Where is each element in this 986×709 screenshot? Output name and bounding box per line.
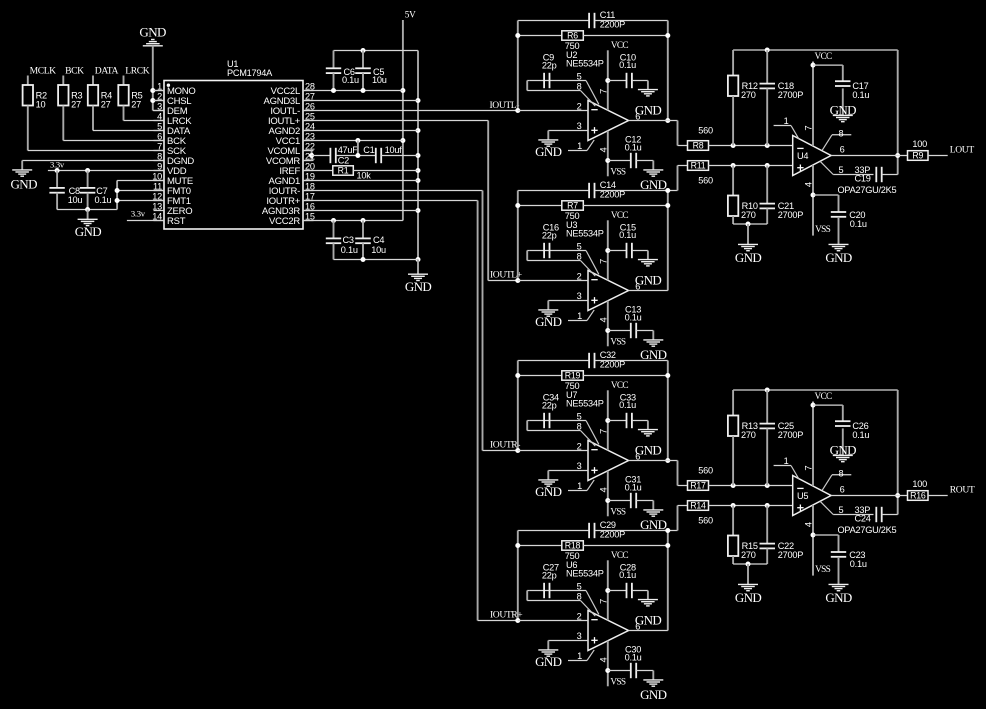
svg-text:VSS: VSS xyxy=(610,167,625,177)
wire (pin 7 VCC) xyxy=(607,220,609,280)
resistor R18 750 (feedback) xyxy=(518,545,562,547)
wire xyxy=(733,563,767,565)
junction xyxy=(811,193,816,198)
svg-text:5: 5 xyxy=(577,71,582,81)
wire (AGND top rail) xyxy=(334,50,419,52)
junction xyxy=(895,153,900,158)
op-amp U4 OPA27GU/2K5 xyxy=(793,136,897,195)
svg-text:4: 4 xyxy=(803,182,814,187)
capacitor C17 0.1u (VCC decoupling) xyxy=(813,64,843,66)
svg-text:GND: GND xyxy=(640,517,667,532)
wire (pin 8 trim) xyxy=(822,475,832,491)
svg-text:11: 11 xyxy=(153,181,162,191)
wire xyxy=(381,155,418,157)
svg-text:VSS: VSS xyxy=(610,507,625,517)
svg-text:10uf: 10uf xyxy=(385,145,403,155)
resistor R5 xyxy=(123,76,125,86)
wire xyxy=(48,170,164,172)
junction xyxy=(765,483,770,488)
svg-text:1: 1 xyxy=(577,311,582,321)
svg-text:22: 22 xyxy=(305,141,315,151)
svg-text:27: 27 xyxy=(101,99,111,109)
capacitor C27 22p (comp pins 5-8) xyxy=(530,590,586,592)
svg-text:C29: C29 xyxy=(600,520,616,530)
junction xyxy=(811,63,816,68)
wire xyxy=(709,505,793,507)
resistor R9 100 (output) xyxy=(908,151,929,161)
svg-text:GND: GND xyxy=(405,279,432,294)
wire (pin 1 trim) xyxy=(774,465,791,467)
svg-text:3: 3 xyxy=(577,121,582,131)
wire (output pin 6) xyxy=(629,630,668,632)
capacitor C34 22p (comp pins 5-8) xyxy=(530,420,586,422)
svg-text:R14: R14 xyxy=(690,501,706,511)
capacitor C13 0.1u (VSS decoupling) xyxy=(608,330,631,332)
junction xyxy=(85,207,90,212)
wire xyxy=(733,223,767,225)
wire xyxy=(153,90,164,92)
junction xyxy=(515,108,520,113)
junction xyxy=(416,168,421,173)
svg-text:GND: GND xyxy=(825,250,852,265)
wire xyxy=(117,200,164,202)
resistor R11 560 xyxy=(688,161,709,171)
ground (below R/C) xyxy=(747,564,749,584)
svg-text:28: 28 xyxy=(305,81,315,91)
junction xyxy=(811,533,816,538)
capacitor C8 xyxy=(56,171,58,188)
svg-text:NE5534P: NE5534P xyxy=(566,58,604,68)
wire (pin 3 to ground) xyxy=(548,300,588,302)
junction xyxy=(331,218,336,223)
resistor R12 270 (feedback) xyxy=(732,50,734,76)
svg-text:0.1u: 0.1u xyxy=(619,570,636,580)
wire (feedback right) xyxy=(667,361,669,461)
svg-text:0.1u: 0.1u xyxy=(625,312,642,322)
ground (VSS decoupling) xyxy=(643,339,663,341)
wire (output pin 6) xyxy=(831,495,907,497)
svg-text:OPA27GU/2K5: OPA27GU/2K5 xyxy=(838,525,897,535)
junction xyxy=(85,168,90,173)
svg-text:GND: GND xyxy=(535,314,562,329)
wire (pin 19 AGND1) xyxy=(303,180,418,182)
svg-text:GND: GND xyxy=(139,25,166,40)
svg-text:2200P: 2200P xyxy=(600,20,625,30)
svg-text:2700P: 2700P xyxy=(778,550,803,560)
svg-text:U4: U4 xyxy=(797,151,808,161)
junction xyxy=(731,503,736,508)
wire (feedback right) xyxy=(667,531,669,631)
svg-text:12: 12 xyxy=(152,191,162,201)
wire (pin 4 VSS) xyxy=(607,131,609,177)
junction xyxy=(665,458,670,463)
wire (pin 7 VCC) xyxy=(607,560,609,620)
wire (feedback left) xyxy=(517,191,519,281)
capacitor C19 33P (comp pin 5) xyxy=(820,161,833,174)
wire xyxy=(62,106,64,141)
resistor R3 xyxy=(62,76,64,86)
svg-text:100: 100 xyxy=(912,479,927,489)
svg-text:10u: 10u xyxy=(68,195,83,205)
ground (pin 3) xyxy=(538,649,558,651)
ground (VSS decoupling) xyxy=(829,583,849,585)
wire (pin 2 input) xyxy=(518,620,588,622)
wire (pin 4 VSS) xyxy=(812,165,814,236)
junction xyxy=(895,493,900,498)
svg-text:C3: C3 xyxy=(343,235,354,245)
svg-text:7: 7 xyxy=(157,141,162,151)
svg-text:GND: GND xyxy=(635,102,662,117)
junction xyxy=(765,388,770,393)
capacitor C33 0.1u (VCC decoupling) xyxy=(608,420,627,422)
junction xyxy=(605,248,610,253)
svg-text:GND: GND xyxy=(11,177,38,192)
svg-text:5: 5 xyxy=(577,411,582,421)
resistor R14 560 xyxy=(688,501,709,511)
junction xyxy=(400,138,405,143)
svg-text:270: 270 xyxy=(741,90,756,100)
op-amp U2 NE5534P xyxy=(566,50,640,152)
wire xyxy=(92,106,94,131)
wire (pin 1 trim) xyxy=(774,125,791,127)
svg-text:3: 3 xyxy=(577,631,582,641)
svg-text:2: 2 xyxy=(577,611,582,621)
wire (pin 4 VSS) xyxy=(607,471,609,517)
svg-text:270: 270 xyxy=(741,210,756,220)
wire xyxy=(709,165,793,167)
capacitor C25 2700P (feedback) xyxy=(766,390,768,424)
capacitor C4 xyxy=(362,221,364,239)
capacitor C31 0.1u (VSS decoupling) xyxy=(608,500,631,502)
junction xyxy=(765,48,770,53)
capacitor C3 xyxy=(333,221,335,239)
wire (pin 8 trim) xyxy=(822,135,832,151)
svg-text:10: 10 xyxy=(152,171,162,181)
wire (U7 output to R17) xyxy=(668,460,678,462)
svg-text:R8: R8 xyxy=(693,141,704,151)
svg-text:C19: C19 xyxy=(855,174,871,184)
capacitor C9 22p (comp pins 5-8) xyxy=(530,80,586,82)
wire (pin 3 to ground) xyxy=(548,640,588,642)
ground (pin 3) xyxy=(538,479,558,481)
capacitor C26 0.1u (VCC decoupling) xyxy=(813,404,843,406)
svg-text:0.1u: 0.1u xyxy=(852,90,869,100)
svg-text:1: 1 xyxy=(784,456,789,466)
junction xyxy=(361,218,366,223)
junction xyxy=(665,528,670,533)
svg-text:8: 8 xyxy=(577,81,582,91)
svg-text:2700P: 2700P xyxy=(778,430,803,440)
junction xyxy=(665,373,670,378)
svg-text:10k: 10k xyxy=(357,170,372,180)
svg-text:560: 560 xyxy=(698,466,713,476)
svg-text:27: 27 xyxy=(71,99,81,109)
wire (feedback right) xyxy=(667,21,669,121)
svg-text:16: 16 xyxy=(305,201,315,211)
svg-text:5: 5 xyxy=(577,581,582,591)
svg-text:2: 2 xyxy=(577,101,582,111)
op-amp U3 NE5534P xyxy=(566,220,640,322)
svg-text:NE5534P: NE5534P xyxy=(566,568,604,578)
svg-text:MCLK: MCLK xyxy=(30,65,57,76)
junction xyxy=(515,618,520,623)
svg-text:270: 270 xyxy=(741,430,756,440)
wire (pin 1 nc) xyxy=(568,490,587,492)
svg-text:VCC: VCC xyxy=(611,211,629,221)
resistor R4 xyxy=(92,76,94,86)
resistor R7 750 (feedback) xyxy=(518,205,562,207)
wire (pin 7 VCC) xyxy=(607,390,609,450)
svg-text:3.3v: 3.3v xyxy=(131,209,146,219)
ground (AGND) xyxy=(417,260,419,275)
svg-text:2200P: 2200P xyxy=(600,360,625,370)
svg-text:1: 1 xyxy=(577,481,582,491)
node VCOM (pins 22+21 joined) xyxy=(303,150,312,152)
resistor R19 750 (feedback) xyxy=(518,375,562,377)
svg-text:GND: GND xyxy=(640,687,667,702)
wire xyxy=(57,209,117,211)
wire (pin 7 VCC) xyxy=(812,402,814,487)
junction xyxy=(765,503,770,508)
svg-text:9: 9 xyxy=(157,161,162,171)
capacitor C18 2700P (feedback) xyxy=(766,50,768,84)
svg-text:14: 14 xyxy=(152,211,162,221)
svg-text:0.1u: 0.1u xyxy=(619,400,636,410)
svg-text:C11: C11 xyxy=(600,10,616,20)
svg-text:GND: GND xyxy=(640,177,667,192)
ground (VSS decoupling) xyxy=(829,243,849,245)
junction xyxy=(811,403,816,408)
svg-text:R1: R1 xyxy=(338,166,349,176)
svg-text:0.1u: 0.1u xyxy=(852,430,869,440)
wire (pin 7 VCC) xyxy=(812,62,814,147)
wire xyxy=(27,106,29,151)
svg-text:GND: GND xyxy=(635,272,662,287)
svg-text:2700P: 2700P xyxy=(778,90,803,100)
junction xyxy=(515,448,520,453)
junction xyxy=(605,498,610,503)
svg-text:270: 270 xyxy=(741,550,756,560)
svg-text:GND: GND xyxy=(535,654,562,669)
wire (feedback top rail) xyxy=(733,49,898,51)
wire xyxy=(312,155,331,157)
wire (output pin 6) xyxy=(831,155,907,157)
svg-text:VCC: VCC xyxy=(815,392,833,402)
wire (feedback top rail) xyxy=(733,389,898,391)
svg-text:R11: R11 xyxy=(691,161,706,171)
junction pin 2 xyxy=(150,98,155,103)
junction xyxy=(515,278,520,283)
svg-text:7: 7 xyxy=(597,429,608,434)
svg-text:4: 4 xyxy=(597,317,608,322)
svg-text:10u: 10u xyxy=(372,75,387,85)
svg-text:26: 26 xyxy=(305,101,315,111)
svg-text:22p: 22p xyxy=(542,61,557,71)
svg-text:0.1u: 0.1u xyxy=(850,559,867,569)
wire (pin 2 input) xyxy=(518,450,588,452)
svg-text:6: 6 xyxy=(157,131,162,141)
svg-text:R17: R17 xyxy=(690,481,706,491)
wire (output pin 6) xyxy=(629,120,668,122)
junction xyxy=(515,373,520,378)
svg-text:GND: GND xyxy=(735,590,762,605)
svg-text:4: 4 xyxy=(597,657,608,662)
junction xyxy=(765,143,770,148)
svg-text:100: 100 xyxy=(912,139,927,149)
capacitor C11 2200P (feedback) xyxy=(518,20,589,22)
svg-text:IOUTL-: IOUTL- xyxy=(490,100,520,111)
junction xyxy=(331,88,336,93)
svg-text:0.1u: 0.1u xyxy=(619,230,636,240)
svg-text:GND: GND xyxy=(735,250,762,265)
svg-text:7: 7 xyxy=(597,89,608,94)
wire (U3 tap to R11) xyxy=(668,190,678,192)
svg-text:GND: GND xyxy=(635,442,662,457)
svg-text:1: 1 xyxy=(157,81,162,91)
ground (pin 3) xyxy=(538,139,558,141)
junction xyxy=(416,208,421,213)
junction xyxy=(355,138,360,143)
svg-text:PCM1794A: PCM1794A xyxy=(227,68,273,78)
junction xyxy=(605,78,610,83)
junction xyxy=(665,203,670,208)
svg-text:8: 8 xyxy=(839,468,844,478)
svg-text:24: 24 xyxy=(305,121,315,131)
svg-text:7: 7 xyxy=(597,599,608,604)
wire xyxy=(709,145,793,147)
svg-text:5: 5 xyxy=(577,241,582,251)
wire xyxy=(928,495,948,497)
svg-text:C24: C24 xyxy=(855,514,871,524)
resistor R17 560 xyxy=(688,481,709,491)
resistor R1 xyxy=(303,170,333,172)
svg-text:R18: R18 xyxy=(565,541,581,551)
junction xyxy=(605,588,610,593)
svg-text:8: 8 xyxy=(577,591,582,601)
wire xyxy=(153,110,164,112)
junction xyxy=(416,153,421,158)
svg-text:LRCK: LRCK xyxy=(125,65,149,76)
svg-text:C4: C4 xyxy=(373,235,384,245)
svg-text:VSS: VSS xyxy=(815,565,830,575)
junction xyxy=(416,98,421,103)
wire (pin 4 VSS) xyxy=(812,505,814,576)
wire xyxy=(117,190,164,192)
junction xyxy=(665,543,670,548)
wire (output pin 6) xyxy=(629,290,668,292)
wire (output pin 6) xyxy=(629,460,668,462)
wire (pin 2 input) xyxy=(518,280,588,282)
resistor R2 xyxy=(27,76,29,86)
junction xyxy=(665,33,670,38)
junction xyxy=(731,483,736,488)
resistor R8 560 xyxy=(688,141,709,151)
svg-text:8: 8 xyxy=(839,128,844,138)
wire (pin 3 to ground) xyxy=(548,470,588,472)
svg-text:25: 25 xyxy=(305,111,315,121)
capacitor C22 2700P (to ground) xyxy=(766,506,768,544)
svg-text:10u: 10u xyxy=(371,245,386,255)
junction xyxy=(515,33,520,38)
svg-text:20: 20 xyxy=(305,161,315,171)
wire (pin 28 VCC2L) xyxy=(303,90,403,92)
capacitor C2 47uF xyxy=(329,148,331,163)
resistor R6 750 (feedback) xyxy=(518,35,562,37)
wire xyxy=(117,180,164,182)
svg-text:2700P: 2700P xyxy=(778,210,803,220)
wire (pin 24 AGND2) xyxy=(303,130,418,132)
svg-text:R16: R16 xyxy=(910,491,926,501)
svg-text:47uF: 47uF xyxy=(338,145,359,155)
svg-text:2: 2 xyxy=(157,91,162,101)
wire (feedback left) xyxy=(517,531,519,621)
junction xyxy=(355,153,360,158)
ground (below C8/C7) xyxy=(87,210,89,220)
capacitor C16 22p (comp pins 5-8) xyxy=(530,250,586,252)
svg-text:0.1u: 0.1u xyxy=(341,245,358,255)
junction xyxy=(115,198,120,203)
svg-text:VSS: VSS xyxy=(610,677,625,687)
junction xyxy=(605,158,610,163)
svg-text:1: 1 xyxy=(577,141,582,151)
wire (pin 3 to ground) xyxy=(548,130,588,132)
wire xyxy=(152,46,154,111)
wire xyxy=(336,155,376,157)
svg-text:5: 5 xyxy=(157,121,162,131)
capacitor C30 0.1u (VSS decoupling) xyxy=(608,670,631,672)
junction xyxy=(400,88,405,93)
svg-text:10: 10 xyxy=(36,99,46,109)
svg-text:GND: GND xyxy=(75,224,102,239)
wire (pin 1 nc) xyxy=(568,660,587,662)
svg-text:0.1u: 0.1u xyxy=(95,195,112,205)
svg-text:22p: 22p xyxy=(542,571,557,581)
svg-text:4: 4 xyxy=(597,487,608,492)
svg-text:3: 3 xyxy=(157,101,162,111)
capacitor C32 2200P (feedback) xyxy=(518,360,589,362)
wire xyxy=(334,259,419,261)
svg-text:IOUTR-: IOUTR- xyxy=(490,439,520,450)
svg-text:17: 17 xyxy=(305,191,315,201)
svg-text:22p: 22p xyxy=(542,231,557,241)
svg-text:8: 8 xyxy=(577,251,582,261)
junction xyxy=(416,257,421,262)
junction xyxy=(361,88,366,93)
svg-text:1: 1 xyxy=(784,116,789,126)
svg-text:4: 4 xyxy=(803,522,814,527)
junction xyxy=(361,48,366,53)
svg-text:2: 2 xyxy=(577,441,582,451)
svg-text:0.1u: 0.1u xyxy=(850,219,867,229)
svg-text:NE5534P: NE5534P xyxy=(566,398,604,408)
wire xyxy=(928,155,948,157)
junction xyxy=(605,328,610,333)
wire (pin 7 VCC) xyxy=(607,50,609,110)
resistor R13 270 (feedback) xyxy=(732,390,734,416)
op-amp U6 NE5534P xyxy=(566,560,640,662)
wire xyxy=(709,485,793,487)
svg-text:U5: U5 xyxy=(797,491,808,501)
svg-text:C2: C2 xyxy=(338,156,349,166)
svg-text:15: 15 xyxy=(305,211,315,221)
svg-text:5: 5 xyxy=(839,165,844,175)
svg-text:13: 13 xyxy=(152,201,162,211)
junction xyxy=(515,543,520,548)
svg-text:R19: R19 xyxy=(565,371,581,381)
svg-text:C32: C32 xyxy=(600,350,616,360)
svg-text:7: 7 xyxy=(597,259,608,264)
capacitor C28 0.1u (VCC decoupling) xyxy=(608,590,627,592)
